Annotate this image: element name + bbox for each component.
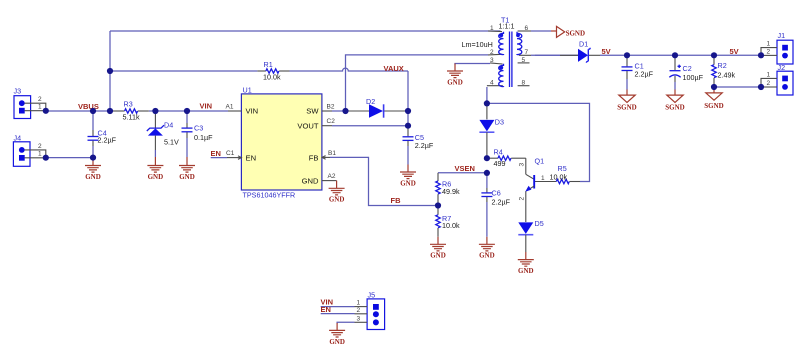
junction R2 5V (711, 52, 717, 58)
svg-text:GND: GND (148, 173, 164, 181)
transistor Q1 (519, 156, 546, 222)
svg-text:GND: GND (479, 252, 495, 260)
power SGND under C2 (665, 90, 684, 112)
svg-text:2: 2 (38, 96, 42, 103)
svg-text:5V: 5V (602, 47, 611, 56)
svg-text:SW: SW (306, 107, 319, 116)
U1 pin C1 with input arrow (227, 157, 241, 159)
wire VSEN horizontal (438, 172, 487, 174)
ground GND under D5 (518, 252, 534, 275)
svg-text:TPS61046YFFR: TPS61046YFFR (243, 191, 296, 200)
junction R1 tap (107, 68, 113, 74)
svg-text:J1: J1 (778, 31, 786, 40)
svg-text:2: 2 (767, 80, 771, 87)
ground GND under C4 (85, 158, 101, 181)
svg-text:EN: EN (211, 149, 221, 158)
svg-text:FB: FB (391, 196, 402, 205)
connector J2 (761, 63, 793, 95)
wire T1 pin4 down to node (486, 87, 488, 103)
wire VOUT to VAUX (332, 125, 408, 127)
U1 pin A1 (228, 110, 241, 112)
svg-text:C1: C1 (226, 150, 235, 157)
svg-text:5V: 5V (730, 47, 739, 56)
svg-text:2: 2 (767, 48, 771, 55)
svg-text:1: 1 (767, 72, 771, 79)
U1 pin B2 (322, 110, 332, 112)
junction J1 tie (758, 52, 764, 58)
svg-text:R4: R4 (494, 148, 503, 157)
junction D3 R4 (484, 155, 490, 161)
resistor R6 (436, 173, 460, 206)
junction D2 cathode VAUX (405, 108, 411, 114)
connector J3 (14, 87, 46, 119)
svg-text:1: 1 (767, 41, 771, 48)
svg-text:J5: J5 (368, 291, 376, 300)
diode D1 schottky (519, 39, 600, 63)
wire EN to J5 (321, 313, 355, 315)
svg-text:2: 2 (357, 307, 361, 314)
T1 pin 5 no-connect stub (518, 62, 530, 64)
svg-text:3: 3 (519, 163, 526, 167)
junction C2 5V (672, 52, 678, 58)
junction C3 top (184, 108, 190, 114)
diode D5 (518, 219, 543, 252)
svg-text:GND: GND (518, 267, 534, 275)
wire node to R5 vertical (487, 103, 590, 181)
svg-text:1: 1 (357, 300, 361, 307)
power SGND under R2 (704, 87, 723, 110)
ground GND at U1 pin A2 (329, 181, 345, 204)
ground GND under C3 (179, 157, 195, 181)
svg-text:Lm=10uH: Lm=10uH (462, 40, 493, 49)
transformer T1 (462, 15, 552, 87)
ground GND under R7 (430, 237, 446, 260)
svg-text:R1: R1 (264, 60, 273, 69)
wire FB from U1 pin B1 (330, 157, 438, 205)
svg-text:3: 3 (357, 315, 361, 322)
svg-text:GND: GND (329, 338, 345, 346)
svg-text:GND: GND (85, 173, 101, 181)
junction SW D2 anode (342, 108, 348, 114)
ground GND under C6 (479, 237, 495, 260)
svg-text:J4: J4 (14, 133, 22, 142)
svg-text:R5: R5 (558, 164, 567, 173)
svg-text:EN: EN (246, 153, 257, 162)
capacitor C4 (88, 111, 117, 158)
wire R1 left segment (110, 70, 257, 72)
svg-text:10.0k: 10.0k (442, 221, 460, 230)
diode D2 (346, 97, 409, 118)
svg-text:D1: D1 (579, 39, 588, 48)
svg-text:D3: D3 (495, 118, 504, 127)
svg-text:VSEN: VSEN (455, 164, 475, 173)
svg-text:5.11k: 5.11k (123, 113, 140, 122)
connector J1 (761, 31, 793, 64)
wire VBUS left vertical (109, 31, 111, 111)
U1 pin B1 with input arrow (322, 156, 330, 158)
wire VBUS top horizontal (110, 30, 501, 32)
junction J4 tie (43, 155, 49, 161)
svg-text:49.9k: 49.9k (442, 187, 460, 196)
svg-text:VIN: VIN (200, 101, 213, 110)
svg-text:VOUT: VOUT (297, 121, 318, 130)
svg-text:1:1:1: 1:1:1 (499, 22, 515, 31)
svg-text:GND: GND (329, 196, 345, 204)
wire VBUS row J3 to R3 (46, 110, 112, 112)
junction VOUT C5 (405, 123, 411, 129)
junction VBUS at vertical (107, 108, 113, 114)
svg-text:10.0k: 10.0k (550, 173, 568, 182)
junction FB R6 R7 (435, 202, 441, 208)
capacitor C1 (622, 55, 654, 89)
svg-text:499: 499 (494, 159, 506, 168)
T1 pin 8 no-connect stub (518, 85, 530, 87)
svg-text:1: 1 (38, 151, 42, 158)
svg-text:GND: GND (179, 173, 195, 181)
connector J4 (13, 133, 45, 166)
junction C1 5V (624, 52, 630, 58)
junction D4 top (152, 108, 158, 114)
svg-text:2: 2 (38, 143, 42, 150)
svg-text:J3: J3 (14, 87, 22, 96)
resistor R4 (487, 148, 526, 169)
svg-text:D5: D5 (535, 219, 544, 228)
svg-text:2: 2 (490, 49, 494, 56)
svg-text:EN: EN (321, 305, 331, 314)
capacitor C6 (481, 173, 510, 237)
wire J5 pin3 to GND (337, 322, 354, 323)
svg-text:4: 4 (490, 80, 494, 87)
junction J2 tie (758, 84, 764, 90)
svg-text:A1: A1 (226, 103, 234, 110)
svg-text:C2: C2 (327, 118, 336, 125)
wire EN stub to U1 (211, 157, 227, 159)
capacitor C2 polarized (669, 55, 703, 89)
svg-text:D2: D2 (366, 97, 375, 106)
ground GND at T1 pin3 (447, 64, 490, 87)
wire R1 right segment with hop (290, 68, 409, 71)
svg-text:VIN: VIN (246, 107, 259, 116)
svg-text:GND: GND (302, 176, 319, 185)
svg-text:Q1: Q1 (535, 156, 545, 165)
svg-text:SGND: SGND (617, 104, 636, 112)
svg-text:3: 3 (490, 57, 494, 64)
wire VAUX vertical (407, 71, 409, 126)
U1 pin C2 (322, 125, 332, 127)
svg-text:0.1µF: 0.1µF (194, 133, 213, 142)
svg-text:A2: A2 (328, 173, 336, 180)
wire 5V rail right (600, 54, 761, 56)
svg-text:2.2µF: 2.2µF (98, 136, 117, 145)
power SGND under C1 (617, 90, 636, 112)
svg-text:GND: GND (447, 79, 463, 87)
connector J5 (355, 291, 385, 330)
junction VSEN C6 (484, 170, 490, 176)
junction J3 tie (43, 108, 49, 114)
U1 pin A2 (322, 180, 337, 182)
svg-text:U1: U1 (243, 86, 252, 95)
capacitor C5 (403, 126, 434, 165)
ground GND under C5 (400, 165, 416, 188)
svg-text:VAUX: VAUX (384, 64, 404, 73)
ground GND under J5 (329, 323, 345, 346)
svg-text:2.49k: 2.49k (718, 70, 736, 79)
svg-text:1: 1 (541, 175, 545, 182)
svg-text:GND: GND (430, 252, 446, 260)
svg-text:J2: J2 (778, 63, 786, 72)
diode D3 (479, 103, 504, 158)
junction C4 top (90, 108, 96, 114)
diode D4 zener (147, 111, 179, 157)
svg-text:D4: D4 (164, 121, 173, 130)
ground GND under D4 (147, 157, 163, 181)
resistor R1 (257, 60, 289, 81)
svg-text:6: 6 (525, 25, 529, 32)
wire J2 tie to R2 bottom (714, 86, 761, 88)
svg-text:SGND: SGND (665, 104, 684, 112)
junction C4 bottom (90, 155, 96, 161)
svg-text:R3: R3 (124, 99, 133, 108)
svg-text:10.0k: 10.0k (263, 73, 281, 82)
svg-text:2: 2 (519, 197, 526, 201)
wire VIN row R3 to U1 (149, 110, 228, 112)
wire SW to junction (332, 110, 346, 112)
wire J4 to C4 bottom (46, 157, 93, 159)
svg-text:2.2µF: 2.2µF (415, 141, 434, 150)
svg-text:C2: C2 (683, 64, 692, 73)
svg-text:FB: FB (309, 153, 319, 162)
resistor R5 (534, 164, 580, 184)
svg-text:100µF: 100µF (683, 73, 704, 82)
power SGND flag at T1 pin6 (551, 26, 585, 37)
junction R2 bottom (711, 84, 717, 90)
svg-text:SGND: SGND (704, 102, 723, 110)
svg-text:B1: B1 (328, 150, 336, 157)
resistor R3 (112, 99, 149, 121)
svg-text:C3: C3 (194, 124, 203, 133)
svg-text:B2: B2 (327, 103, 335, 110)
capacitor C3 (182, 111, 214, 157)
svg-text:GND: GND (400, 179, 416, 187)
resistor R7 (436, 206, 460, 237)
IC U1 TPS61046YFFR (226, 86, 337, 200)
svg-text:7: 7 (525, 49, 529, 56)
svg-text:1: 1 (490, 25, 494, 32)
svg-text:2.2µF: 2.2µF (492, 198, 511, 207)
svg-text:2.2µF: 2.2µF (635, 70, 654, 79)
svg-text:1: 1 (38, 104, 42, 111)
resistor R2 (712, 55, 736, 87)
wire VIN to J5 (321, 306, 355, 308)
wire SW up to T1 pin2 (346, 55, 489, 111)
svg-text:5.1V: 5.1V (164, 137, 179, 146)
junction T1 pin4 node (484, 100, 490, 106)
svg-text:R2: R2 (718, 61, 727, 70)
svg-text:C6: C6 (492, 188, 501, 197)
svg-text:SGND: SGND (566, 29, 585, 37)
wire 5V rail (531, 54, 578, 56)
